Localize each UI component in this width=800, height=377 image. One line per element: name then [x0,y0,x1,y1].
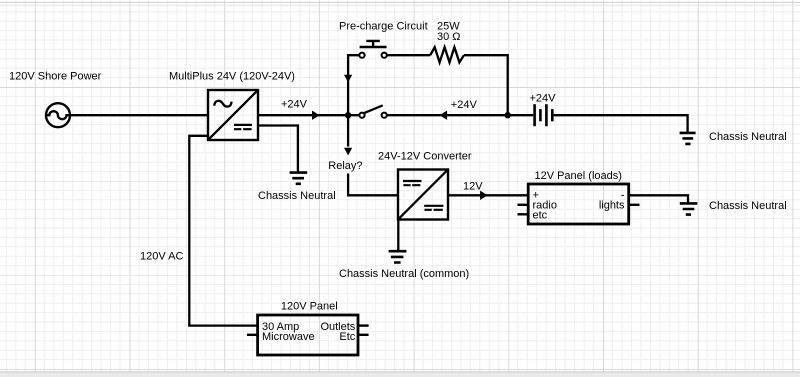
arrow right on 12V output [480,191,488,200]
wire converter 12V output to 12V panel [448,194,528,196]
svg-text:Chassis Neutral: Chassis Neutral [709,131,787,143]
svg-text:Etc: Etc [339,331,355,343]
relay switch SW2 on main bus [359,105,386,117]
box 120V panel [258,315,358,355]
svg-text:120V Panel: 120V Panel [281,300,338,312]
svg-text:+24V: +24V [451,99,478,111]
canvas top edge [0,1,800,3]
inverter U1 MultiPlus box [208,90,258,140]
wire battery to right chassis ground [554,115,688,132]
stub 12V panel left 2 [518,213,529,215]
ground chassis neutral common [389,251,407,262]
wire relay label to converter input [348,174,398,196]
wire pre-charge left branch up from junction to pushbutton [348,55,359,115]
canvas bottom edge [0,371,800,373]
wire MultiPlus +24V output to junction [258,114,359,116]
svg-text:Chassis Neutral (common): Chassis Neutral (common) [339,268,469,280]
ac source G1 120V shore power [46,103,70,127]
junction node at resistor branch [505,112,511,118]
battery B1 24V [535,104,553,126]
svg-text:Microwave: Microwave [262,331,315,343]
wire shore power to MultiPlus [70,114,208,116]
arrow down on relay branch [344,148,352,156]
box 12V panel loads [528,184,629,224]
svg-text:24V-12V Converter: 24V-12V Converter [378,151,472,163]
stub 120V panel left [247,334,258,336]
pushbutton SW1 pre-charge [359,41,386,58]
wire MultiPlus second output to ground [258,126,298,172]
svg-text:etc: etc [533,210,548,222]
stub 12V panel right [629,204,640,206]
svg-text:Relay?: Relay? [328,160,362,172]
svg-text:120V AC: 120V AC [140,250,183,262]
stub 120V panel right 2 [358,334,369,336]
arrow down on pre-charge branch [344,75,352,83]
svg-text:12V Panel (loads): 12V Panel (loads) [534,170,621,182]
svg-text:12V: 12V [463,180,483,192]
svg-text:+24V: +24V [530,93,557,105]
svg-text:MultiPlus 24V (120V-24V): MultiPlus 24V (120V-24V) [169,71,295,83]
svg-text:120V Shore Power: 120V Shore Power [9,71,102,83]
svg-text:lights: lights [599,199,625,211]
resistor R1 30 ohm 25W [430,47,464,62]
svg-text:+24V: +24V [281,99,308,111]
svg-text:Chassis Neutral: Chassis Neutral [709,200,787,212]
stub 120V panel right 1 [358,324,369,326]
svg-text:30 Ω: 30 Ω [437,31,461,43]
wire 120V AC from MultiPlus to 120V panel [189,136,257,326]
converter U2 24V-12V box [398,170,448,220]
converter ground stem [397,220,399,251]
arrow right on +24V bus [312,111,320,120]
ground chassis neutral below MultiPlus [290,173,308,184]
stub 12V panel left 1 [518,204,529,206]
svg-text:Pre-charge Circuit: Pre-charge Circuit [339,21,428,33]
wire relay branch down from junction with arrow [347,115,349,146]
junction node at relay tap [345,112,351,118]
wire resistor to junction at main bus [464,55,508,115]
wire relay switch to battery [387,114,533,116]
wire 12V panel to right chassis ground [629,195,688,202]
wire pushbutton to resistor [387,54,430,56]
svg-text:Chassis Neutral: Chassis Neutral [258,190,336,202]
ground chassis neutral right lower [680,203,698,214]
ground chassis neutral right top [680,133,696,144]
arrow left from battery [440,111,448,120]
